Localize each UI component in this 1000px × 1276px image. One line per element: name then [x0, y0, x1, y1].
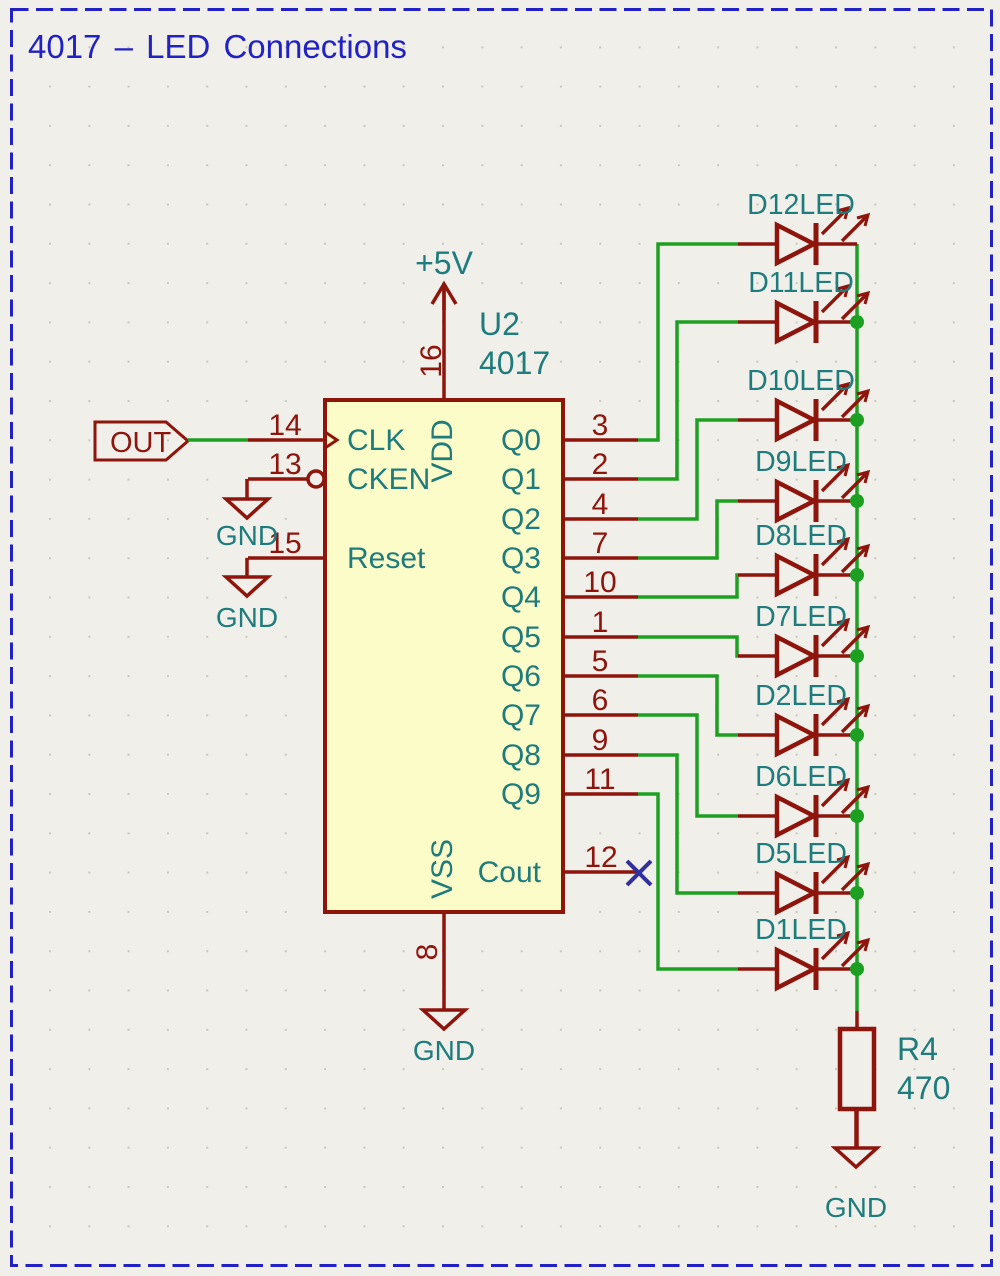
svg-text:8: 8 — [411, 944, 444, 961]
pin 2 Q1 — [501, 448, 638, 496]
wire Q5 to LED row — [638, 637, 738, 656]
wire Q8 to LED row — [638, 755, 738, 893]
junction at D9 cathode — [850, 494, 864, 508]
pin 16 VDD — [415, 286, 459, 483]
svg-text:5: 5 — [592, 645, 609, 678]
svg-text:D9LED: D9LED — [755, 446, 847, 478]
svg-text:D6LED: D6LED — [755, 761, 847, 793]
junction at D7 cathode — [850, 649, 864, 663]
wire OUT to CLK — [188, 438, 248, 442]
junction at D6 cathode — [850, 809, 864, 823]
svg-text:11: 11 — [584, 763, 615, 796]
svg-text:U2: U2 — [479, 306, 520, 342]
svg-text:D12LED: D12LED — [747, 189, 855, 221]
svg-text:D2LED: D2LED — [755, 680, 847, 712]
pin 8 VSS — [411, 839, 459, 1010]
LED D10 — [738, 365, 868, 441]
pin 6 Q7 — [501, 684, 638, 732]
svg-text:13: 13 — [268, 448, 301, 481]
pin 11 Q9 — [501, 763, 638, 811]
svg-text:D8LED: D8LED — [755, 520, 847, 552]
wire Q2 to LED row — [638, 420, 738, 519]
ground symbol at CKEN (pin 13) — [216, 479, 278, 551]
wire Q9 to LED row — [638, 794, 738, 969]
global label OUT — [95, 422, 188, 460]
LED D9 — [738, 446, 868, 522]
wire Q1 to LED row — [638, 322, 738, 479]
svg-text:Q3: Q3 — [501, 542, 541, 575]
svg-text:10: 10 — [583, 566, 616, 599]
svg-text:14: 14 — [268, 409, 301, 442]
svg-text:Q4: Q4 — [501, 581, 541, 614]
LED D1 — [738, 914, 868, 990]
svg-text:CLK: CLK — [347, 424, 405, 457]
svg-text:+5V: +5V — [415, 245, 473, 281]
junction at D2 cathode — [850, 728, 864, 742]
svg-text:470: 470 — [897, 1070, 950, 1106]
junction at D11 cathode — [850, 315, 864, 329]
svg-text:Q0: Q0 — [501, 424, 541, 457]
svg-text:2: 2 — [592, 448, 609, 481]
svg-text:9: 9 — [592, 724, 609, 757]
ground symbol at R4 — [825, 1110, 887, 1223]
pin 9 Q8 — [501, 724, 638, 772]
svg-text:GND: GND — [216, 602, 278, 633]
svg-text:Reset: Reset — [347, 542, 426, 575]
svg-text:D5LED: D5LED — [755, 838, 847, 870]
LED D5 — [738, 838, 868, 914]
svg-text:D7LED: D7LED — [755, 601, 847, 633]
no-connect X on pin 12 — [627, 861, 651, 885]
LED D7 — [738, 601, 868, 677]
svg-text:R4: R4 — [897, 1031, 938, 1067]
svg-text:Q2: Q2 — [501, 503, 541, 536]
junction at D10 cathode — [850, 413, 864, 427]
svg-text:Q9: Q9 — [501, 778, 541, 811]
pin 15 Reset — [248, 527, 426, 575]
wire Q4 to LED row — [638, 575, 738, 597]
svg-text:OUT: OUT — [110, 427, 172, 459]
wire Q7 to LED row — [638, 715, 738, 816]
svg-text:4017: 4017 — [479, 345, 550, 381]
svg-text:D11LED: D11LED — [748, 267, 854, 299]
svg-text:GND: GND — [216, 520, 278, 551]
svg-text:Q8: Q8 — [501, 739, 541, 772]
svg-text:Q1: Q1 — [501, 463, 541, 496]
junction at D8 cathode — [850, 568, 864, 582]
svg-text:CKEN: CKEN — [347, 463, 430, 496]
svg-text:Q7: Q7 — [501, 699, 541, 732]
svg-text:D1LED: D1LED — [755, 914, 847, 946]
svg-text:Cout: Cout — [478, 856, 542, 889]
ground symbol at Reset (pin 15) — [216, 558, 278, 633]
svg-text:4017 – LED Connections: 4017 – LED Connections — [28, 28, 407, 65]
svg-text:VDD: VDD — [426, 419, 459, 482]
svg-text:6: 6 — [592, 684, 609, 717]
LED D8 — [738, 520, 868, 596]
pin 13 CKEN with inverting bubble — [248, 448, 430, 496]
pin 10 Q4 — [501, 566, 638, 614]
junction at D5 cathode — [850, 886, 864, 900]
pin 14 CLK — [248, 409, 405, 457]
resistor R4 — [840, 1011, 950, 1148]
svg-text:VSS: VSS — [426, 839, 459, 899]
wire Q3 to LED row — [638, 501, 738, 558]
power symbol +5V — [415, 245, 473, 310]
svg-text:Q6: Q6 — [501, 660, 541, 693]
LED D11 — [738, 267, 868, 343]
pin 5 Q6 — [501, 645, 638, 693]
svg-text:7: 7 — [592, 527, 609, 560]
pin 7 Q3 — [501, 527, 638, 575]
svg-text:1: 1 — [592, 606, 609, 639]
pin 12 Cout — [478, 841, 638, 889]
svg-text:4: 4 — [592, 488, 609, 521]
ground symbol at VSS (pin 8) — [413, 1010, 475, 1066]
svg-text:16: 16 — [415, 344, 448, 377]
pin 1 Q5 — [501, 606, 638, 654]
LED D2 — [738, 680, 868, 756]
svg-text:GND: GND — [413, 1035, 475, 1066]
pin 3 Q0 — [501, 409, 638, 457]
LED D6 — [738, 761, 868, 837]
wire LED cathode bus vertical — [855, 244, 859, 1011]
svg-text:GND: GND — [825, 1192, 887, 1223]
IC U2 4017 body — [325, 400, 563, 912]
pin 4 Q2 — [501, 488, 638, 536]
svg-text:12: 12 — [584, 841, 617, 874]
svg-text:Q5: Q5 — [501, 621, 541, 654]
svg-text:3: 3 — [592, 409, 609, 442]
LED D12 — [738, 189, 868, 265]
svg-text:D10LED: D10LED — [747, 365, 855, 397]
wire Q6 to LED row — [638, 676, 738, 735]
junction at D1 cathode — [850, 962, 864, 976]
wire Q0 to LED row — [638, 244, 738, 440]
